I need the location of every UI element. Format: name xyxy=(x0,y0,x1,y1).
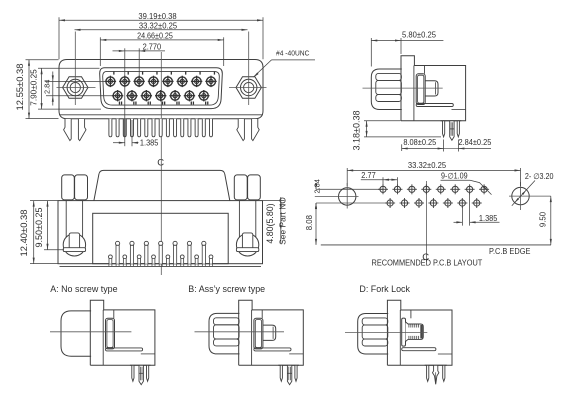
svg-text:9.50: 9.50 xyxy=(539,211,548,227)
view D fork lock: flange plate xyxy=(387,300,400,365)
view B assy screw: pcb pins xyxy=(278,365,299,385)
pin numbers top row xyxy=(113,72,215,75)
pcb pin hole 1 xyxy=(378,184,388,194)
svg-text:39.19±0.38: 39.19±0.38 xyxy=(138,12,176,21)
svg-text:33.32±0.25: 33.32±0.25 xyxy=(408,161,446,170)
view B assy screw: molded body xyxy=(239,310,304,365)
svg-text:8.08: 8.08 xyxy=(305,214,314,230)
side view: screw head section xyxy=(425,81,438,96)
contact pin 13 xyxy=(141,90,152,101)
svg-text:P.C.B EDGE: P.C.B EDGE xyxy=(489,247,530,256)
svg-text:9.50±0.25: 9.50±0.25 xyxy=(34,208,44,248)
dimension 39.19 xyxy=(59,12,263,60)
svg-text:2.77: 2.77 xyxy=(361,171,375,180)
svg-text:4.80(5.80): 4.80(5.80) xyxy=(265,203,275,243)
dimension 12.55 xyxy=(15,60,58,119)
pcb pin hole 10 xyxy=(400,198,410,208)
dimension 2.77 pcb xyxy=(361,171,398,186)
dimension 8.08 xyxy=(402,138,444,152)
svg-text:7.90±0.25: 7.90±0.25 xyxy=(29,69,39,106)
svg-text:33.32±0.25: 33.32±0.25 xyxy=(139,21,177,30)
jack screw tops xyxy=(62,175,261,200)
pcb pin hole 4 xyxy=(421,184,431,194)
pcb pin hole 7 xyxy=(465,184,475,194)
view A no screw: molded body xyxy=(90,310,155,365)
solder tail pins front view xyxy=(109,119,213,137)
contact pin 15 xyxy=(112,90,123,101)
dimension 7.90 xyxy=(29,68,101,109)
dimension 2.84 row pitch xyxy=(42,72,113,106)
D-shell inner outline xyxy=(103,71,220,105)
dimension 9.50 screw xyxy=(34,201,64,250)
top view centerline xyxy=(160,169,162,276)
dimension 4.80(5.80) See Part NO xyxy=(263,197,288,245)
nut centerlines xyxy=(57,32,267,106)
top view pin tails xyxy=(109,241,213,266)
view A no screw: plain boss (no screw) xyxy=(61,311,91,356)
right jack-screw hex nut xyxy=(236,77,261,99)
svg-text:12.40±0.38: 12.40±0.38 xyxy=(19,209,30,256)
label #4-40UNC xyxy=(254,50,316,77)
pcb layout centerline xyxy=(426,181,428,262)
pcb pin hole 5 xyxy=(436,184,446,194)
top view flange xyxy=(58,201,263,264)
svg-text:24.66±0.25: 24.66±0.25 xyxy=(137,31,173,40)
pcb pin hole 12 xyxy=(428,198,438,208)
pcb pin hole 3 xyxy=(407,184,417,194)
view A no screw: contact foot xyxy=(106,348,155,354)
contact pin 1 xyxy=(205,76,216,87)
svg-text:See Part NO: See Part NO xyxy=(277,197,287,245)
top view base lip xyxy=(60,265,262,267)
contact pin 9 xyxy=(198,90,209,101)
side view: jack screw hex nut side xyxy=(371,69,402,110)
pin numbers bottom row xyxy=(119,102,209,105)
svg-text:B: Ass’y screw type: B: Ass’y screw type xyxy=(188,284,265,294)
dimension 8.08 pcb xyxy=(305,203,317,245)
dimension 33.32 pcb xyxy=(347,161,520,186)
svg-text:9-∅1.09: 9-∅1.09 xyxy=(441,171,468,180)
pcb pin hole 13 xyxy=(443,198,453,208)
svg-text:D: Fork Lock: D: Fork Lock xyxy=(359,284,410,294)
pcb row extension lines xyxy=(316,189,390,203)
view B assy screw: contact foot xyxy=(254,348,303,354)
dimension 33.32 xyxy=(75,21,248,30)
dimension 2.84 pin spacing xyxy=(444,138,492,152)
side view: pcb pins xyxy=(441,121,462,141)
view B assy screw: centerline xyxy=(195,331,285,333)
pcb pin hole 2 xyxy=(392,184,402,194)
top view hood xyxy=(94,170,230,200)
contact pin 6 xyxy=(133,76,144,87)
svg-text:C: C xyxy=(157,158,164,169)
dimension 1.385 pcb xyxy=(454,193,500,226)
top view insulator body xyxy=(93,213,229,263)
label 2-dia3.20 xyxy=(512,172,554,206)
view B assy screw: flange plate xyxy=(239,300,252,365)
side view: flange plate xyxy=(401,56,414,121)
centerline symbol view1 xyxy=(157,155,164,169)
contact pin 4 xyxy=(162,76,173,87)
view B assy screw: jack screw hex nut side xyxy=(209,313,240,354)
pcb mounting hole right xyxy=(509,182,551,210)
view D fork lock: contact clip xyxy=(402,310,411,346)
view D fork lock: pcb pins xyxy=(425,365,447,384)
view D fork lock: screw with threads xyxy=(406,322,424,342)
view D fork lock: molded body xyxy=(387,310,452,365)
svg-text:8.08±0.25: 8.08±0.25 xyxy=(403,138,436,147)
side view: molded body xyxy=(401,66,466,121)
dimension 12.40 xyxy=(19,201,58,264)
board-lock fork leg xyxy=(237,119,259,141)
svg-text:1.385: 1.385 xyxy=(479,214,498,223)
pcb mounting hole left xyxy=(315,183,359,209)
contact pin 8 xyxy=(105,76,116,87)
view B assy screw: contact clip xyxy=(254,310,263,349)
dimension 9.50 pcb xyxy=(539,196,552,245)
view B assy screw: screw head section xyxy=(263,325,276,340)
dimension 3.18 xyxy=(351,111,441,151)
view D fork lock: centerline xyxy=(345,332,427,334)
contact pin 11 xyxy=(169,90,180,101)
contact pin 10 xyxy=(184,90,195,101)
svg-text:1.385: 1.385 xyxy=(140,138,159,147)
svg-text:2.84±0.25: 2.84±0.25 xyxy=(458,138,491,147)
svg-text:#4 -40UNC: #4 -40UNC xyxy=(276,50,309,57)
dimension 2.84 pcb xyxy=(312,179,321,209)
svg-text:2.84: 2.84 xyxy=(42,80,51,94)
view A no screw: pcb pins xyxy=(130,365,151,385)
svg-text:2- ∅3.20: 2- ∅3.20 xyxy=(525,172,554,181)
D-shell outer outline xyxy=(100,68,223,109)
contact pin 14 xyxy=(126,90,137,101)
dimension 24.66 xyxy=(100,31,223,66)
view D fork lock: jack screw hex nut side xyxy=(358,314,389,355)
view A no screw: centerline xyxy=(50,331,131,333)
pcb pin hole 6 xyxy=(450,184,460,194)
svg-text:RECOMMENDED P.C.B LAYOUT: RECOMMENDED P.C.B LAYOUT xyxy=(372,258,483,267)
label 9-dia1.09 xyxy=(441,171,492,194)
left jack-screw hex nut xyxy=(63,77,88,99)
front view centerline xyxy=(160,52,162,155)
svg-text:2.84: 2.84 xyxy=(312,179,321,193)
board-lock fork leg xyxy=(64,119,86,141)
contact pin 5 xyxy=(148,76,159,87)
svg-text:A: No screw type: A: No screw type xyxy=(50,284,117,294)
view A no screw: contact clip xyxy=(106,310,115,349)
contact pin 7 xyxy=(119,76,130,87)
svg-text:12.55±0.38: 12.55±0.38 xyxy=(15,63,26,110)
front view flange shell xyxy=(59,60,263,119)
contact pin 2 xyxy=(191,76,202,87)
dimension 5.80 xyxy=(371,31,443,67)
jack screw barrel xyxy=(63,201,85,256)
jack screw barrel xyxy=(236,201,258,256)
dimension 2.770 xyxy=(113,42,166,120)
pcb pin hole 14 xyxy=(457,198,467,208)
contact pin 12 xyxy=(155,90,166,101)
side view: contact clip xyxy=(416,66,425,105)
side view: centerline xyxy=(363,87,443,89)
view A no screw: flange plate xyxy=(90,300,103,365)
pcb pin hole 8 xyxy=(479,184,489,194)
side view: contact foot xyxy=(416,104,465,110)
svg-text:2.770: 2.770 xyxy=(143,42,162,51)
view D fork lock: contact foot xyxy=(402,348,452,354)
svg-text:5.80±0.25: 5.80±0.25 xyxy=(402,31,436,40)
pcb edge line xyxy=(321,244,551,246)
dimension 1.385 tail pitch xyxy=(113,120,158,147)
pcb pin hole 9 xyxy=(385,198,395,208)
contact pin 3 xyxy=(177,76,188,87)
svg-text:3.18±0.38: 3.18±0.38 xyxy=(351,111,361,151)
pcb pin hole 11 xyxy=(414,198,424,208)
pcb pin hole 15 xyxy=(472,198,482,208)
